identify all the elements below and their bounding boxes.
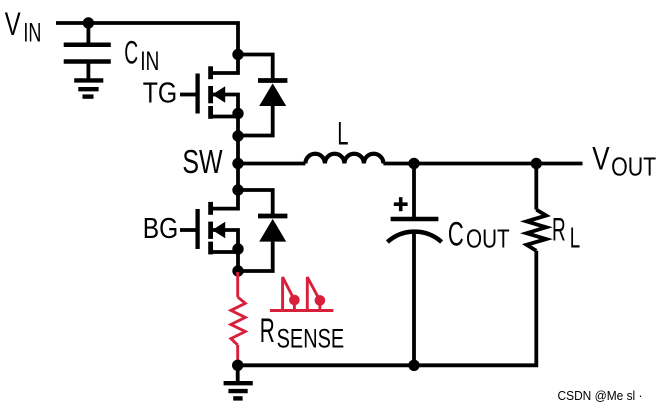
junction dot ground node xyxy=(232,360,243,371)
node VOUT label xyxy=(592,141,656,182)
svg-text:SENSE: SENSE xyxy=(277,324,345,354)
capacitor COUT label xyxy=(448,216,510,254)
svg-text:R: R xyxy=(552,211,566,247)
wire COUT bottom lead xyxy=(412,232,416,365)
svg-text:C: C xyxy=(448,216,464,254)
svg-text:IN: IN xyxy=(140,46,159,76)
svg-text:CSDN @Me sl ·: CSDN @Me sl · xyxy=(558,388,643,403)
transistor Q1 top MOSFET (TG) xyxy=(198,66,238,208)
wire SW to inductor xyxy=(238,162,305,166)
wire inductor to VOUT xyxy=(383,162,582,166)
waveform sample dot 1 xyxy=(289,295,300,306)
svg-text:OUT: OUT xyxy=(611,151,656,181)
waveform sample dot 2 xyxy=(315,295,326,306)
diode D1 body diode of TG xyxy=(238,55,287,136)
wire ground stem xyxy=(236,365,240,383)
wire BG gate lead xyxy=(180,228,196,232)
wire bottom rail xyxy=(238,251,537,366)
diode D2 body diode of BG xyxy=(238,190,287,271)
junction dot RL top xyxy=(531,158,542,169)
wire top rail VIN to TG drain column xyxy=(56,23,238,73)
wire COUT top lead xyxy=(412,164,416,218)
svg-text:L: L xyxy=(570,222,580,254)
svg-text:BG: BG xyxy=(143,213,179,245)
junction dot VIN/CIN xyxy=(83,17,94,28)
junction dot BG-diode bottom xyxy=(232,265,243,276)
capacitor CIN xyxy=(64,45,111,62)
junction dot SW xyxy=(232,158,243,169)
plus sign for COUT polarity xyxy=(394,197,408,211)
junction dot TG source xyxy=(232,108,243,119)
transistor Q2 bottom MOSFET (BG) xyxy=(198,202,238,271)
node VIN label xyxy=(5,6,42,47)
resistor RL label xyxy=(552,211,580,254)
wire CIN stub xyxy=(87,23,91,43)
wire red RSENSE top lead xyxy=(236,272,239,297)
junction dot BG source xyxy=(232,243,243,254)
svg-text:C: C xyxy=(124,35,138,71)
capacitor CIN label xyxy=(124,35,159,76)
svg-text:OUT: OUT xyxy=(466,224,510,254)
capacitor COUT (polarized) xyxy=(387,219,441,242)
svg-text:V: V xyxy=(592,141,610,177)
wire TG gate lead xyxy=(180,93,196,97)
resistor RL xyxy=(527,210,547,251)
svg-text:IN: IN xyxy=(23,17,41,47)
junction dot BG drain / diode xyxy=(232,184,243,195)
svg-text:V: V xyxy=(5,6,21,42)
svg-text:R: R xyxy=(260,312,275,350)
svg-text:SW: SW xyxy=(182,143,223,180)
junction dot COUT bottom xyxy=(408,360,419,371)
resistor RSENSE label xyxy=(260,312,344,354)
junction dot TG drain / diode xyxy=(232,49,243,60)
svg-text:L: L xyxy=(337,115,348,151)
junction dot TG-diode bottom xyxy=(232,130,243,141)
current sense waveform icon (red) xyxy=(270,277,334,310)
wire RL top lead xyxy=(534,164,538,210)
svg-text:TG: TG xyxy=(143,77,178,109)
wire CIN to ground xyxy=(87,64,91,81)
resistor RSENSE (red) xyxy=(231,297,245,345)
wire red RSENSE bottom lead xyxy=(236,345,239,365)
ground bottom xyxy=(224,383,253,398)
ground under CIN xyxy=(74,80,103,96)
junction dot COUT top xyxy=(408,158,419,169)
inductor L xyxy=(305,154,383,164)
